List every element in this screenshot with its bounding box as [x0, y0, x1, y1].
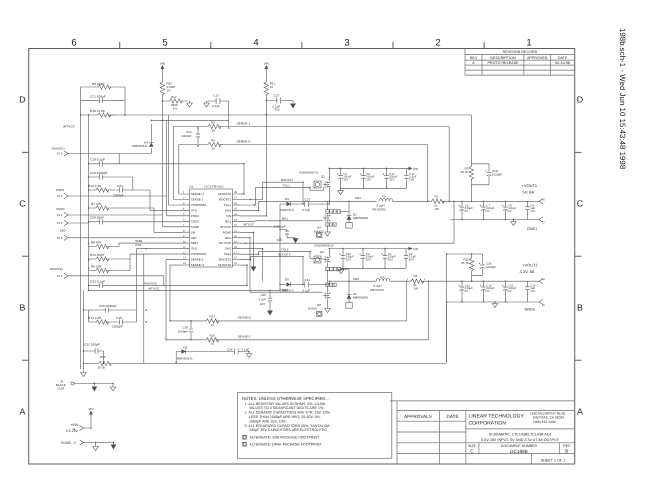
- node INTVCC 2: [148, 286, 159, 290]
- svg-text:CLIP: CLIP: [58, 387, 65, 391]
- svg-text:1W: 1W: [435, 207, 440, 211]
- resistor R9: [89, 259, 131, 273]
- svg-text:CMDSH-3: CMDSH-3: [280, 208, 294, 212]
- wire J3-6 stub: [68, 222, 89, 224]
- connector J6 GND2: [539, 299, 545, 307]
- svg-text:6V: 6V: [465, 210, 469, 213]
- transistor Q5: [308, 281, 337, 316]
- svg-text:J3-5: J3-5: [57, 274, 63, 278]
- svg-text:ALTERNATE: DPAK PACKAGE FOOTPR: ALTERNATE: DPAK PACKAGE FOOTPRINT.: [250, 443, 323, 447]
- svg-text:50V: 50V: [409, 259, 414, 262]
- svg-text:5: 5: [162, 38, 167, 49]
- ground open at J2: [93, 447, 99, 451]
- svg-text:1000pF: 1000pF: [492, 173, 502, 177]
- svg-text:SUD50N03-10: SUD50N03-10: [314, 244, 334, 248]
- svg-text:3: 3: [344, 38, 349, 49]
- svg-text:VIN: VIN: [89, 407, 94, 411]
- svg-text:SHEET 1 OF 1: SHEET 1 OF 1: [541, 458, 566, 462]
- ground at output2: [492, 302, 498, 308]
- diode D1: [341, 201, 369, 228]
- svg-text:DOCUMENT NUMBER: DOCUMENT NUMBER: [501, 444, 538, 448]
- svg-text:TGL1: TGL1: [224, 203, 232, 207]
- svg-text:VOSENSE2: VOSENSE2: [191, 252, 207, 256]
- svg-text:2200pF: 2200pF: [113, 194, 124, 198]
- resistor R15: [83, 355, 446, 370]
- diode D3: [280, 197, 305, 212]
- wire INTVCC pin22: [240, 226, 280, 228]
- svg-text:J2: J2: [73, 442, 76, 445]
- svg-text:VIN: VIN: [413, 167, 418, 171]
- svg-text:0.1µF: 0.1µF: [303, 208, 311, 212]
- power PGND arrow pin21: [251, 267, 257, 272]
- svg-text:VIN: VIN: [226, 214, 231, 218]
- svg-text:B: B: [20, 303, 26, 313]
- svg-text:Q1: Q1: [321, 175, 325, 179]
- svg-text:L3: L3: [381, 275, 385, 279]
- capacitor C25: [258, 290, 272, 310]
- power VIN arrow at R20: [160, 62, 165, 73]
- svg-text:PE-53700: PE-53700: [371, 288, 385, 292]
- U1 pin labels: [191, 192, 232, 267]
- wire junction dots: [80, 100, 514, 443]
- svg-text:CMDSH-3: CMDSH-3: [280, 288, 294, 292]
- capacitor C24: [89, 171, 133, 190]
- connector J7 GND1: [539, 217, 545, 225]
- node SENSE+1: [237, 140, 252, 144]
- svg-text:10: 10: [211, 323, 215, 327]
- resistor R3: [198, 121, 449, 133]
- svg-text:C27: C27: [274, 93, 280, 97]
- svg-text:16V: 16V: [260, 302, 265, 306]
- svg-text:SGND: SGND: [191, 225, 199, 229]
- svg-text:MMSD914L: MMSD914L: [177, 357, 193, 361]
- node SENSE-2: [238, 334, 251, 338]
- svg-text:DC198B: DC198B: [510, 449, 528, 454]
- wire EXTVCC net: [240, 201, 454, 243]
- ground at Q5: [325, 309, 331, 313]
- wire BG1 net: [240, 220, 323, 223]
- svg-text:SFB1: SFB1: [191, 241, 199, 245]
- svg-text:BOOST2: BOOST2: [219, 258, 231, 262]
- svg-text:GND2: GND2: [525, 308, 536, 312]
- capacitor C35: [178, 321, 193, 340]
- svg-text:SGND: SGND: [56, 207, 65, 211]
- svg-text:Si4420: Si4420: [308, 306, 318, 310]
- svg-text:C30 1000pF: C30 1000pF: [99, 304, 117, 308]
- svg-text:C29: C29: [116, 316, 122, 320]
- svg-text:SENSE-2: SENSE-2: [238, 334, 251, 338]
- svg-text:R6 OMIT: R6 OMIT: [92, 82, 105, 86]
- connector J3-2 RUN/SS1: [52, 147, 68, 157]
- U1 pin stubs: [182, 194, 240, 265]
- power PGND arrow at C27: [290, 104, 296, 109]
- ground at R19: [187, 103, 193, 107]
- wire VIN rail stage2: [329, 248, 408, 250]
- svg-text:R17: R17: [210, 315, 216, 319]
- node RUN/SS2: [144, 281, 157, 285]
- wire RUN/SS1 to pin 28: [240, 193, 244, 195]
- svg-text:C25: C25: [261, 293, 267, 297]
- svg-text:R14 2.2K: R14 2.2K: [88, 316, 102, 320]
- svg-text:1000pF: 1000pF: [178, 330, 188, 334]
- svg-text:TGL1: TGL1: [283, 183, 291, 187]
- node GND2: [525, 308, 536, 312]
- svg-text:5.5V-28V INPUT, 5V AND 3.3V AT: 5.5V-28V INPUT, 5V AND 3.3V AT 8A OUTPUT: [481, 438, 560, 442]
- node BG2: [282, 288, 288, 292]
- svg-text:LINEAR TECHNOLOGY: LINEAR TECHNOLOGY: [469, 414, 525, 420]
- power VIN arrow stage2: [409, 247, 419, 251]
- svg-text:35V: 35V: [366, 179, 371, 182]
- svg-text:ITH1: ITH1: [191, 208, 198, 212]
- svg-text:1%: 1%: [167, 89, 172, 93]
- svg-text:4: 4: [253, 38, 258, 49]
- svg-text:INTVCC: INTVCC: [63, 125, 76, 129]
- svg-text:6V: 6V: [508, 210, 512, 213]
- svg-text:SCHEMATIC: LTC1438/LTC1438-ADJ: SCHEMATIC: LTC1438/LTC1438-ADJ: [489, 433, 552, 437]
- svg-text:C: C: [19, 199, 26, 209]
- svg-text:DATE: DATE: [558, 56, 568, 60]
- svg-text:APPROVALS: APPROVALS: [404, 414, 432, 419]
- svg-text:SENSE+1: SENSE+1: [237, 140, 252, 144]
- resistor R18: [166, 333, 428, 345]
- svg-text:10V: 10V: [530, 290, 535, 293]
- svg-text:2. ALL CERAMIC CAPACITORS ARE: 2. ALL CERAMIC CAPACITORS ARE X7R, 16V, …: [245, 411, 331, 415]
- svg-text:330µF 35V CAPACITORS ARE ELECT: 330µF 35V CAPACITORS ARE ELECTROLYTIC.: [249, 428, 328, 432]
- svg-text:SW1: SW1: [355, 196, 362, 200]
- svg-text:35.7K: 35.7K: [461, 261, 469, 265]
- node TGL2: [281, 248, 289, 252]
- wire band verticals: [162, 115, 178, 227]
- revision record table: [465, 49, 575, 76]
- resistor R5 + capacitor C18: [461, 164, 503, 202]
- svg-text:1: 1: [526, 38, 531, 49]
- wire VIN net to pin 24: [240, 101, 266, 216]
- capacitor bank C12 C14 C13 C15: [458, 281, 535, 302]
- capacitor C31: [303, 278, 330, 292]
- svg-text:TGL2: TGL2: [224, 252, 232, 256]
- ground at ladder bottom: [81, 373, 87, 377]
- svg-text:SW1: SW1: [225, 208, 232, 212]
- wire RUN/SS1 row: [68, 153, 152, 155]
- svg-text:6V: 6V: [486, 290, 490, 293]
- title block: [390, 401, 575, 464]
- svg-text:C32 100pF: C32 100pF: [84, 342, 100, 346]
- svg-text:0.1µF: 0.1µF: [303, 288, 311, 292]
- svg-text:INTVCC: INTVCC: [220, 225, 231, 229]
- svg-text:3. ALL POLARIZED CAPACITORS 20: 3. ALL POLARIZED CAPACITORS 20%, TANTALU…: [245, 424, 331, 428]
- svg-text:A: A: [20, 407, 26, 417]
- node SENSE-1: [237, 122, 251, 126]
- notes block: [238, 392, 392, 458]
- connector J4 black clip: [56, 380, 113, 391]
- svg-text:J3-3: J3-3: [57, 236, 63, 240]
- capacitor C26: [274, 225, 296, 242]
- capacitor C21: [81, 95, 126, 103]
- svg-text:COSC: COSC: [191, 219, 199, 223]
- wire TGL2 net: [240, 252, 323, 259]
- wire RUN/SS2 stub: [68, 276, 164, 286]
- svg-text:+VOUT1: +VOUT1: [522, 183, 538, 188]
- node BG1: [282, 217, 288, 221]
- node +VOUT2: [520, 263, 538, 275]
- svg-text:ITH2: ITH2: [191, 247, 198, 251]
- wire SENSE+1 drop: [427, 145, 429, 202]
- transistor Q4: [314, 201, 341, 237]
- svg-text:REV: REV: [563, 444, 571, 448]
- svg-text:PGND: PGND: [61, 441, 72, 445]
- node TGL1: [283, 183, 291, 187]
- svg-text:LBI: LBI: [191, 230, 196, 234]
- wire SW2 net: [240, 249, 263, 282]
- svg-text:APPROVED: APPROVED: [527, 56, 548, 60]
- svg-text:L1: L1: [383, 194, 387, 198]
- node ITH2: [135, 243, 142, 247]
- wire output2 bottom rail: [447, 301, 539, 303]
- wire VOSENSE1 rail: [108, 115, 471, 164]
- power PGND arrow at J2: [111, 445, 117, 450]
- capacitor C28: [89, 216, 183, 225]
- resistor R10: [81, 109, 116, 117]
- U1 pin numbers: [183, 191, 237, 265]
- svg-text:SENSE+2: SENSE+2: [238, 316, 252, 320]
- resistor R17: [170, 315, 407, 327]
- capacitor C32: [83, 342, 103, 363]
- svg-text:LBO: LBO: [60, 229, 67, 233]
- svg-text:PE-53700: PE-53700: [373, 207, 387, 211]
- svg-text:DATE: DATE: [447, 414, 459, 419]
- svg-text:1000pF: 1000pF: [486, 265, 496, 269]
- wire ITH2 row: [137, 249, 183, 322]
- svg-text:06-10-98: 06-10-98: [555, 61, 570, 65]
- diode D2: [341, 269, 369, 308]
- svg-text:R15: R15: [100, 355, 106, 359]
- capacitor C17: [207, 94, 229, 127]
- svg-text:RUN/SS2: RUN/SS2: [144, 281, 157, 285]
- svg-text:35V: 35V: [346, 259, 351, 262]
- svg-text:VIN: VIN: [413, 247, 418, 251]
- svg-text:PROTO RELEASE: PROTO RELEASE: [487, 61, 519, 65]
- wire ladder left rail: [81, 115, 89, 369]
- capacitor C34: [227, 347, 249, 354]
- svg-text:6: 6: [71, 38, 76, 49]
- connector J3-6: [57, 220, 68, 225]
- power VIN arrow at J1: [89, 407, 94, 418]
- svg-text:1%: 1%: [173, 107, 178, 111]
- svg-text:SW2: SW2: [225, 247, 232, 251]
- svg-text:MBRD835L: MBRD835L: [353, 296, 369, 300]
- op-amp U1 LTC1438-ADJ body: [190, 184, 233, 267]
- wire RUN/SS2 to pin 15: [240, 264, 247, 266]
- svg-text:10: 10: [212, 129, 216, 133]
- svg-text:D6: D6: [184, 345, 188, 349]
- svg-text:BG1: BG1: [225, 219, 231, 223]
- connector J5: [539, 198, 545, 204]
- power PGND arrow at C26: [293, 238, 299, 243]
- svg-text:ITH2: ITH2: [135, 243, 142, 247]
- wire INTVCC vertical: [279, 204, 281, 290]
- svg-text:SENSE+2: SENSE+2: [191, 263, 205, 267]
- wire BOOST2 net: [240, 257, 303, 285]
- svg-text:R13 OMIT: R13 OMIT: [90, 253, 105, 257]
- svg-text:1. ALL RESISTOR VALUES IN OHMS: 1. ALL RESISTOR VALUES IN OHMS, 5%, 1/10…: [245, 402, 326, 406]
- svg-text:C22: C22: [305, 198, 311, 202]
- svg-text:(408) 432-1900: (408) 432-1900: [533, 420, 556, 424]
- svg-text:U1: U1: [190, 184, 194, 188]
- svg-text:D3: D3: [285, 197, 289, 201]
- svg-text:VIN: VIN: [264, 62, 269, 66]
- svg-text:50V: 50V: [409, 179, 414, 182]
- connector J3-5 RUN/SS2: [50, 267, 68, 278]
- svg-text:10: 10: [212, 147, 216, 151]
- node BOOST1: [281, 178, 293, 182]
- svg-text:35V: 35V: [388, 259, 393, 262]
- diode D6: [176, 345, 234, 362]
- resistor R16 + capacitor C36: [447, 254, 497, 363]
- svg-text:C28 82pF: C28 82pF: [90, 216, 104, 220]
- svg-text:35V: 35V: [389, 179, 394, 182]
- capacitor C19: [89, 154, 245, 195]
- connector J3-4 POR2: [56, 188, 68, 199]
- svg-text:R18: R18: [210, 333, 216, 337]
- capacitor C20: [181, 127, 200, 145]
- svg-text:R3: R3: [211, 121, 215, 125]
- svg-text:50V: 50V: [275, 108, 280, 112]
- svg-text:SIZE: SIZE: [468, 444, 476, 448]
- svg-text:C24 1000pF: C24 1000pF: [90, 171, 108, 175]
- svg-text:POR2: POR2: [191, 214, 199, 218]
- svg-text:R19: R19: [171, 95, 177, 99]
- wire ladder rail lower: [83, 285, 88, 372]
- svg-text:0.1µF: 0.1µF: [242, 347, 250, 351]
- svg-text:B: B: [565, 449, 568, 454]
- svg-text:REV: REV: [470, 56, 478, 60]
- node INTVCC pin22: [243, 223, 254, 227]
- svg-text:RUN/SS2: RUN/SS2: [50, 267, 63, 271]
- svg-text:GND1: GND1: [527, 227, 538, 231]
- connector J3-3 LBO: [57, 229, 68, 241]
- resistor R13: [89, 253, 183, 261]
- resistor R1: [432, 194, 540, 211]
- resistor R12 + capacitor C23: [88, 184, 182, 211]
- node INTVCC label: [63, 125, 76, 129]
- svg-text:VIN: VIN: [160, 62, 165, 66]
- svg-text:10: 10: [211, 342, 215, 346]
- svg-text:D: D: [577, 95, 583, 105]
- svg-text:J1: J1: [72, 427, 75, 430]
- svg-text:MMSD914L: MMSD914L: [132, 144, 148, 148]
- svg-text:A: A: [577, 407, 583, 417]
- wire SENSE-1 drop: [174, 127, 450, 202]
- ground at C16 bank: [338, 270, 344, 274]
- wire SENSE-2 drop: [166, 260, 428, 340]
- connector J3-1 SGND: [56, 207, 68, 218]
- node SW2: [353, 277, 360, 281]
- power VIN arrow at R11: [264, 62, 269, 73]
- ground at C34: [246, 354, 252, 358]
- svg-text:35V: 35V: [343, 179, 348, 182]
- svg-text:1W: 1W: [414, 287, 419, 291]
- wire BOOST1 net: [240, 182, 303, 204]
- svg-text:1000pF ARE 25V, 10%.: 1000pF ARE 25V, 10%.: [249, 419, 287, 423]
- node SW1: [355, 196, 362, 200]
- svg-text:R10 11.0K: R10 11.0K: [90, 109, 106, 113]
- node BOOST2: [278, 253, 290, 257]
- svg-text:RUN/SS2: RUN/SS2: [218, 263, 231, 267]
- wire COSC rail: [151, 119, 228, 121]
- svg-text:VALUES TO 3 SIGNIFICANT DIGITS: VALUES TO 3 SIGNIFICANT DIGITS ARE 1%.: [249, 406, 324, 410]
- svg-text:C: C: [577, 199, 584, 209]
- wire SENSE+2 drop: [170, 265, 407, 321]
- svg-text:D5: D5: [285, 278, 289, 282]
- node +VOUT1: [522, 183, 538, 195]
- wire TGL1 net: [240, 187, 323, 205]
- capacitor C27: [266, 93, 293, 111]
- svg-text:Si4420: Si4420: [314, 229, 324, 233]
- svg-text:VOSENSE1: VOSENSE1: [191, 203, 207, 207]
- diode D4: [132, 124, 153, 154]
- svg-text:198b.sch-1 - Wed Jun 10 15:43:: 198b.sch-1 - Wed Jun 10 15:43:48 1998: [618, 28, 627, 169]
- svg-text:D: D: [19, 95, 25, 105]
- capacitor C33 / RUN/SS2 row: [89, 265, 248, 288]
- diode D5: [280, 278, 305, 293]
- svg-text:LBO: LBO: [191, 236, 198, 240]
- wire comp rail: [83, 254, 143, 363]
- resistor R19: [162, 95, 189, 111]
- svg-text:6V: 6V: [508, 290, 512, 293]
- power VIN arrow stage1: [409, 167, 419, 171]
- wire LBO row: [68, 237, 183, 239]
- capacitor bank C16 C3 C2 C4: [339, 249, 416, 270]
- svg-text:C31: C31: [305, 278, 311, 282]
- resistor R2: [407, 274, 539, 291]
- svg-text:EXTVCC: EXTVCC: [219, 241, 231, 245]
- svg-text:C33 0.1µF: C33 0.1µF: [90, 279, 105, 283]
- inductor L3: [329, 275, 406, 292]
- svg-text:6V: 6V: [465, 290, 469, 293]
- svg-text:LTC1438-ADJ: LTC1438-ADJ: [204, 184, 224, 188]
- capacitor C22: [303, 198, 330, 212]
- transistor Q1: [299, 168, 330, 201]
- svg-text:C23: C23: [117, 184, 123, 188]
- ground at output1: [511, 220, 517, 226]
- transistor Q2: [314, 244, 341, 282]
- svg-text:MBRD835L: MBRD835L: [353, 216, 369, 220]
- svg-text:LESS THAN 1000pF ARE NPO, 25-5: LESS THAN 1000pF ARE NPO, 25-50V, 5%.: [249, 415, 321, 419]
- svg-text:5V, 8A: 5V, 8A: [523, 190, 535, 195]
- wire POR2 row: [68, 196, 183, 216]
- svg-text:SENSE-1: SENSE-1: [191, 198, 204, 202]
- connector J1 +VIN: [66, 418, 91, 433]
- svg-text:J3-2: J3-2: [57, 152, 63, 156]
- svg-text:10V: 10V: [530, 210, 535, 213]
- svg-text:Q2: Q2: [320, 250, 324, 254]
- svg-text:DESCRIPTION: DESCRIPTION: [490, 56, 516, 60]
- resistor R7: [89, 202, 183, 233]
- wire R6/C21 loop: [81, 87, 126, 115]
- svg-text:10: 10: [270, 85, 274, 89]
- capacitor C30: [95, 304, 137, 313]
- svg-text:SUD50N03-10: SUD50N03-10: [299, 171, 319, 175]
- resistor R8: [89, 241, 183, 249]
- svg-text:2200pF: 2200pF: [112, 325, 123, 329]
- ground at C1 bank: [338, 191, 344, 195]
- resistor R6 (OMIT): [81, 82, 126, 89]
- svg-text:BOOST1: BOOST1: [281, 178, 293, 182]
- svg-text:6V: 6V: [486, 210, 490, 213]
- power PGND arrow at C25: [267, 311, 273, 316]
- svg-text:BOOST1: BOOST1: [219, 198, 231, 202]
- svg-text:CORPORATION: CORPORATION: [469, 421, 507, 427]
